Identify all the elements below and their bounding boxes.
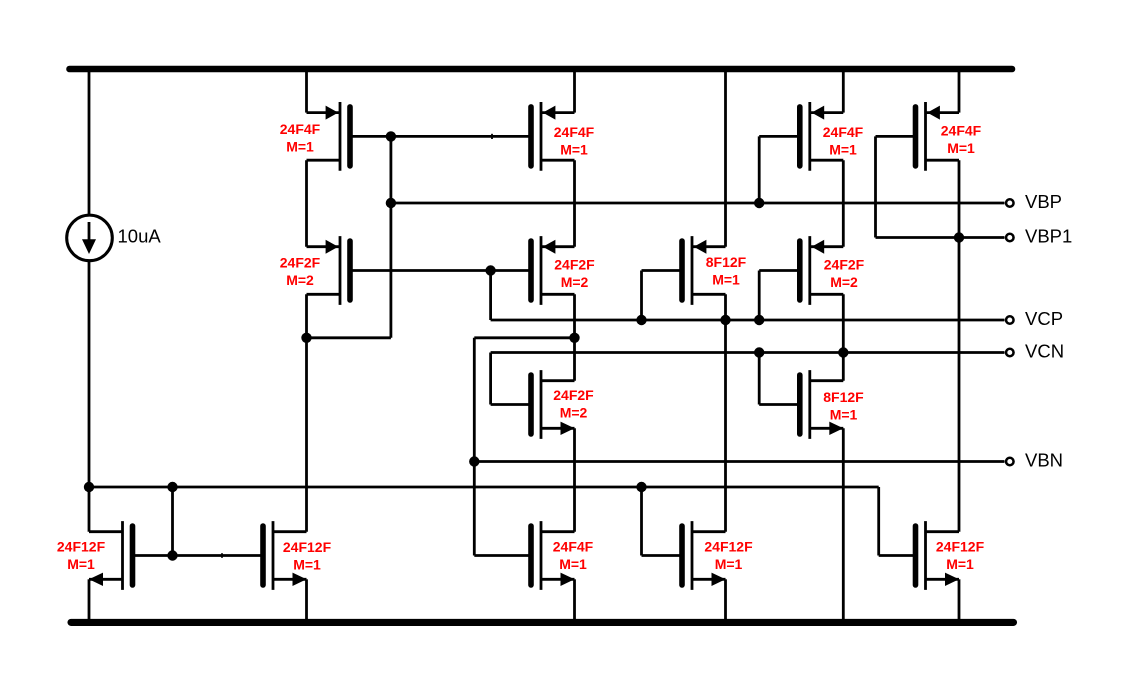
terminal pin VBP1 [1006, 234, 1014, 242]
junction VCP at M7 drain [720, 315, 730, 325]
wire M7 gate drop to VCP [640, 271, 643, 321]
wire M12 source to VSS [305, 579, 308, 622]
svg-text:M=1: M=1 [946, 556, 974, 572]
svg-text:M=1: M=1 [286, 138, 314, 154]
transistor M13 (NMOS 24F4F M=1) [531, 521, 575, 590]
svg-text:M=1: M=1 [947, 140, 975, 156]
transistor M7 (PMOS 8F12F M=1) [682, 236, 726, 305]
svg-text:24F4F: 24F4F [823, 124, 864, 140]
svg-text:8F12F: 8F12F [823, 389, 864, 405]
current source I1 10uA [67, 215, 113, 261]
svg-text:24F12F: 24F12F [704, 539, 753, 555]
junction VBP start [386, 198, 396, 208]
svg-text:M=1: M=1 [67, 556, 95, 572]
wire M3 drain jog to VBP vertical [307, 336, 391, 339]
wire M2 drain to M4 source [573, 160, 576, 247]
transistor M6 (PMOS 24F4F M=1) [916, 102, 960, 171]
wire net VBP [391, 202, 1005, 205]
junction M1-M2 gate tap [386, 131, 396, 141]
wire VDD to M2 source [573, 69, 576, 113]
svg-text:VBP: VBP [1025, 191, 1062, 212]
wire VDD to M1 source [305, 69, 308, 113]
wire VBN node jog [474, 336, 574, 339]
wire net VCP [491, 319, 1005, 322]
svg-text:24F4F: 24F4F [280, 121, 321, 137]
transistor M12 (NMOS 24F12F M=1) [263, 521, 307, 590]
wire M1 drain to M3 source [305, 160, 308, 247]
terminal pin VCN [1006, 349, 1014, 357]
wire M14 gate rise to mirror wire [640, 487, 643, 556]
wire VDD to M5 source [842, 69, 845, 113]
terminal pin VBN [1006, 458, 1014, 466]
wire M15 gate lead [879, 554, 916, 557]
transistor M5 (PMOS 24F4F M=1) [800, 102, 844, 171]
wire M4 drain to M9 drain (VBN node) [573, 294, 576, 380]
transistor M15 (NMOS 24F12F M=1) [916, 521, 960, 590]
wire M9 gate lead [491, 403, 531, 406]
svg-text:M=2: M=2 [560, 404, 588, 420]
junction VBP at M5 gate [754, 198, 764, 208]
wire M7 gate lead [642, 269, 683, 272]
svg-text:24F12F: 24F12F [57, 539, 106, 555]
wire M10 gate lead [759, 403, 800, 406]
svg-text:M=1: M=1 [712, 271, 740, 287]
transistor M9 (NMOS 24F2F M=2) [531, 370, 575, 439]
svg-text:24F4F: 24F4F [554, 124, 595, 140]
junction VBN wire start [469, 456, 479, 466]
svg-text:M=2: M=2 [830, 274, 858, 290]
junction VCP at M7 gate [636, 315, 646, 325]
svg-text:M=2: M=2 [286, 272, 314, 288]
svg-text:24F2F: 24F2F [280, 255, 321, 271]
transistor M2 (PMOS 24F4F M=1) [531, 102, 575, 171]
VSS ground rail [71, 619, 1014, 626]
VDD power rail [70, 66, 1013, 73]
svg-text:M=1: M=1 [830, 406, 858, 422]
junction mirror wire at M14 gate [636, 482, 646, 492]
transistor M8 (PMOS 24F2F M=2) [800, 236, 844, 305]
svg-text:24F2F: 24F2F [553, 387, 594, 403]
junction mirror wire diode tap [167, 482, 177, 492]
wire VDD to M7 source [724, 69, 727, 247]
wire M1-M2 gate wire [350, 135, 531, 138]
wire M14 source to VSS [724, 579, 727, 622]
wire M5 drain to M8 source [842, 160, 845, 247]
junction VCN at M8 drain [838, 347, 848, 357]
wire node NBIAS to VSS (M11 source) [88, 579, 91, 622]
wire M8 drain to M10 drain (through VCN) [842, 294, 845, 380]
wire net VCN [491, 351, 1005, 354]
connection tick on M11-M12 gate wire [221, 553, 223, 558]
wire gates of M1-M2 drop to VBP [389, 136, 392, 337]
svg-text:M=1: M=1 [560, 141, 588, 157]
wire M9 gate rise to VCN [489, 353, 492, 405]
wire M13 gate lead [474, 554, 531, 557]
junction VCP at M8 gate [754, 315, 764, 325]
svg-text:M=1: M=1 [559, 556, 587, 572]
wire M10 source to VSS [842, 428, 845, 622]
wire M6 drain to M15 drain (through VBP1) [958, 160, 961, 532]
junction M3-M4 gate VCP tap [485, 265, 495, 275]
svg-text:24F2F: 24F2F [824, 257, 865, 273]
terminal pin VBP [1006, 199, 1014, 207]
svg-text:VBN: VBN [1025, 450, 1063, 471]
transistor M4 (PMOS 24F2F M=2) [531, 236, 575, 305]
junction VCN at M10 gate [754, 347, 764, 357]
transistor M1 (PMOS 24F4F M=1) [307, 102, 351, 171]
wire M8 gate drop to VCP [758, 271, 761, 321]
svg-text:M=2: M=2 [561, 274, 589, 290]
wire VDD to current source [88, 69, 91, 216]
wire M6 gate drop to VBP1 [874, 136, 877, 237]
wire M6 gate lead [876, 135, 916, 138]
wire NMOS mirror gate wire [89, 486, 879, 489]
wire M15 source to VSS [958, 579, 961, 622]
svg-text:M=1: M=1 [829, 141, 857, 157]
wire M14 gate lead [642, 554, 683, 557]
svg-text:VCP: VCP [1025, 308, 1063, 329]
wire M13 gate rise (VBN) [473, 338, 476, 556]
svg-text:24F2F: 24F2F [554, 257, 595, 273]
wire M5 gate lead [759, 135, 800, 138]
transistor M14 (NMOS 24F12F M=1) [682, 521, 726, 590]
svg-text:24F12F: 24F12F [283, 539, 332, 555]
svg-text:M=1: M=1 [293, 556, 321, 572]
wire VCP tap from M3-M4 gates [489, 271, 492, 321]
svg-text:10uA: 10uA [118, 226, 162, 247]
svg-text:8F12F: 8F12F [706, 254, 747, 270]
connection tick on M1-M2 gate wire [491, 134, 493, 139]
svg-text:24F4F: 24F4F [553, 539, 594, 555]
junction M3 drain junction [301, 333, 311, 343]
wire net VBN [474, 460, 1004, 463]
wire M10 gate rise to VCN [758, 353, 761, 405]
wire current source to node NBIAS [88, 261, 91, 531]
svg-text:M=1: M=1 [715, 556, 743, 572]
wire M7 drain to M14 drain (through VCP) [724, 294, 727, 531]
junction VBP1 at M6 drain [954, 232, 964, 242]
wire M11 diode connection rise [171, 487, 174, 556]
wire M9 source to M13 drain [573, 428, 576, 531]
wire M13 source to VSS [573, 579, 576, 622]
wire VDD to M6 source [958, 69, 961, 113]
wire net VBP1 [876, 236, 1005, 239]
svg-text:VBP1: VBP1 [1025, 226, 1072, 247]
terminal pin VCP [1006, 316, 1014, 324]
wire M3-M4 gate wire [350, 269, 531, 272]
wire M15 gate rise to mirror wire [877, 487, 880, 556]
junction VBN node junction [569, 333, 579, 343]
svg-text:24F4F: 24F4F [941, 123, 982, 139]
svg-text:VCN: VCN [1025, 341, 1064, 362]
junction M11-M12 gate tap [167, 550, 177, 560]
transistor M10 (NMOS 8F12F M=1) [800, 370, 844, 439]
wire M3 drain to M12 drain [305, 294, 308, 531]
transistor M11 (NMOS 24F12F M=1) [89, 521, 133, 590]
transistor M3 (PMOS 24F2F M=2) [307, 236, 351, 305]
junction mirror wire at M11 drain [84, 482, 94, 492]
wire M11-M12 gate wire [133, 554, 264, 557]
wire M8 gate lead [759, 269, 800, 272]
wire M5 gate drop to VBP [758, 136, 761, 203]
svg-text:24F12F: 24F12F [936, 539, 985, 555]
